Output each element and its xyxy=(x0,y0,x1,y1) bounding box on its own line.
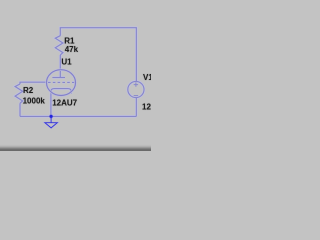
core pass of all wiring xyxy=(15,28,144,117)
soft halo pass of all wiring xyxy=(15,28,144,117)
node junction dot halo xyxy=(49,114,53,118)
svg-text:12AU7: 12AU7 xyxy=(52,98,77,107)
svg-text:47k: 47k xyxy=(65,45,79,54)
ground halo pass xyxy=(45,116,57,128)
node junction dot xyxy=(50,115,53,118)
triode U1 envelope halo xyxy=(47,70,76,96)
ground core pass xyxy=(45,116,57,128)
svg-text:120: 120 xyxy=(142,102,151,111)
svg-text:V1: V1 xyxy=(143,73,151,82)
svg-text:U1: U1 xyxy=(61,58,72,67)
bottom shadow edge xyxy=(0,144,151,151)
triode U1 envelope xyxy=(47,70,76,96)
svg-text:R1: R1 xyxy=(64,36,75,45)
svg-text:1000k: 1000k xyxy=(23,97,46,106)
svg-text:R2: R2 xyxy=(23,86,34,95)
